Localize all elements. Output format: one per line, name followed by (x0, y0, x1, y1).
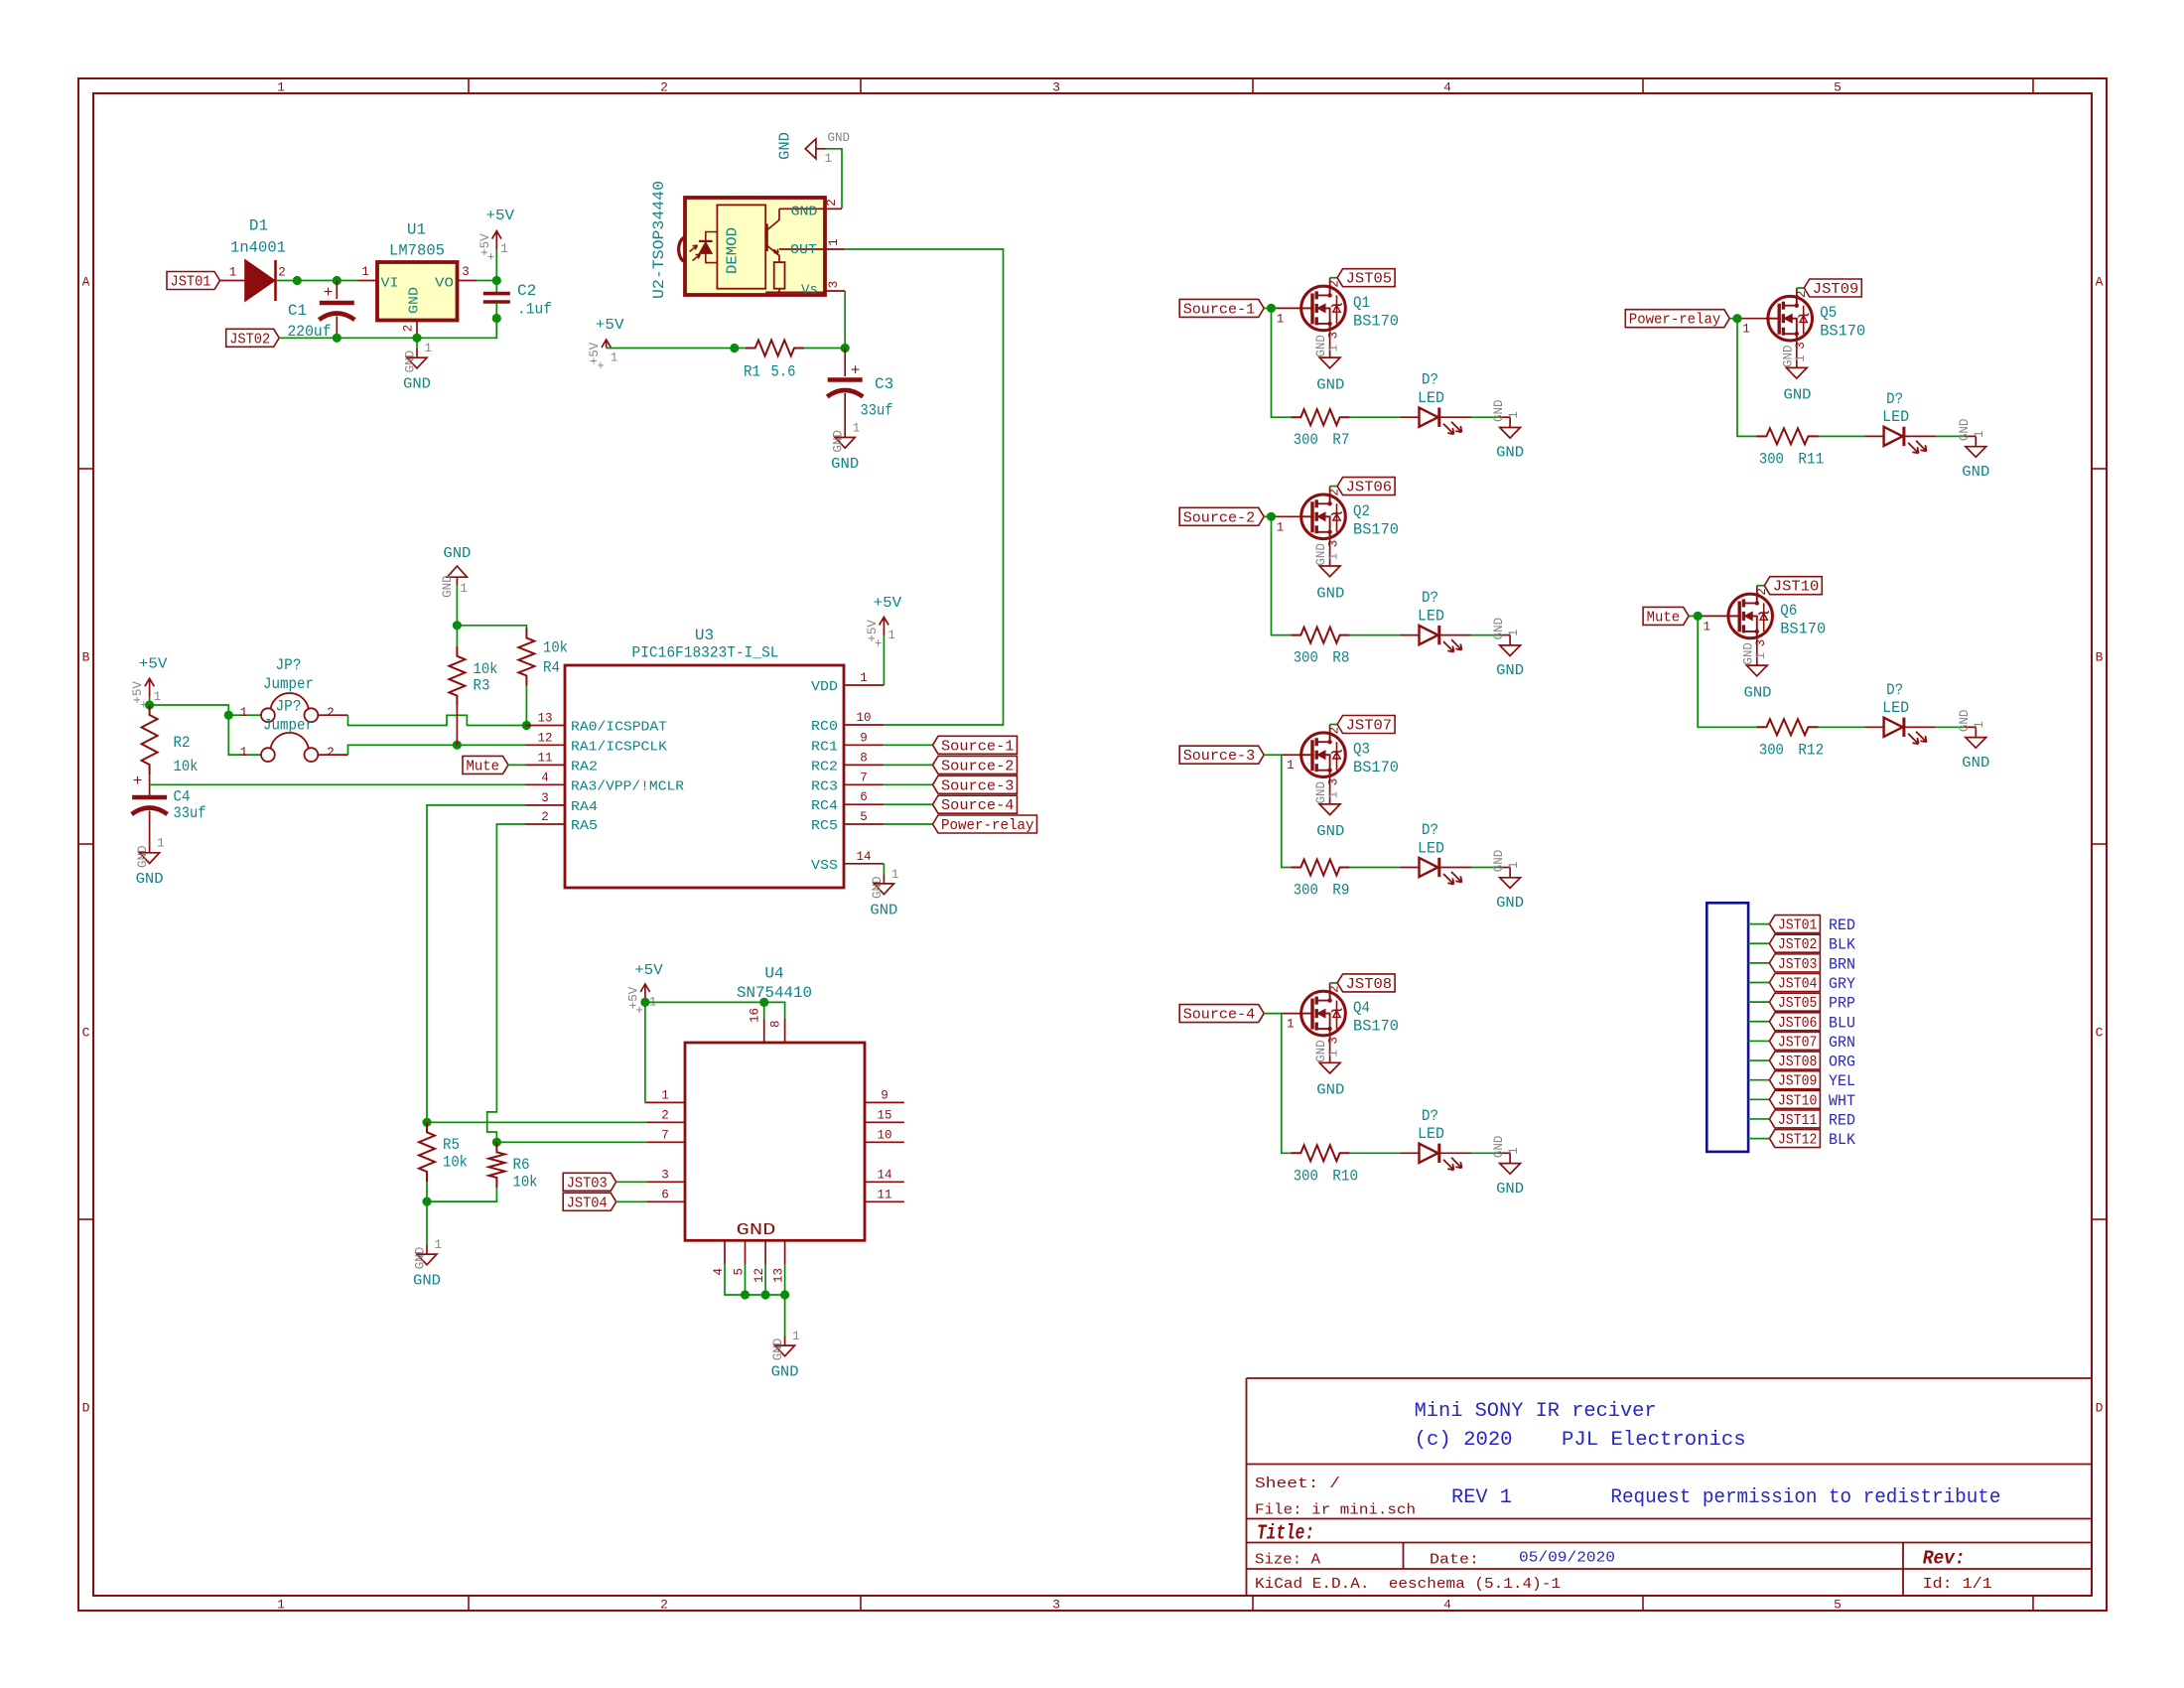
svg-text:BS170: BS170 (1820, 323, 1865, 341)
svg-text:RC3: RC3 (811, 778, 838, 794)
power +5V at U1 output (495, 250, 497, 279)
svg-text:JST02: JST02 (229, 331, 270, 348)
svg-text:5: 5 (1834, 80, 1842, 95)
global label Source-2 at RC2 (933, 756, 1018, 774)
U2 internal resistor (774, 262, 785, 289)
svg-text:3: 3 (1327, 332, 1341, 340)
wire R6 row to U4 pin 7 (496, 1141, 645, 1143)
svg-text:5: 5 (860, 810, 868, 824)
svg-text:JST04: JST04 (567, 1195, 608, 1211)
jumper JP2 (261, 748, 275, 762)
resistor R2 (142, 705, 158, 774)
global label JST09 at drain (1797, 287, 1805, 289)
transistor Q5 BS170 (1768, 296, 1813, 341)
capacitor C4 (132, 795, 167, 800)
svg-text:GRN: GRN (1829, 1034, 1855, 1052)
svg-text:SN754410: SN754410 (737, 984, 812, 1002)
wire gate node to resistor R7 (1272, 308, 1292, 417)
svg-text:DEMOD: DEMOD (725, 227, 742, 274)
wire GND to U2 pin 2 (826, 149, 843, 209)
svg-text:2: 2 (327, 746, 335, 760)
junction R5 top (422, 1118, 431, 1127)
svg-text:10k: 10k (513, 1174, 538, 1192)
svg-text:JST06: JST06 (1346, 480, 1393, 496)
pin 2 drain of Q4 (1329, 983, 1331, 991)
transistor Q3 BS170 (1301, 733, 1346, 777)
junction C1 bottom (333, 334, 341, 343)
resistor R3 (449, 646, 465, 706)
svg-text:JST01: JST01 (1778, 917, 1818, 934)
ground GND below Q1 (1319, 357, 1340, 368)
svg-text:Mini SONY IR reciver: Mini SONY IR reciver (1415, 1400, 1657, 1423)
U4 pin 1 (646, 1101, 685, 1103)
svg-text:BS170: BS170 (1353, 312, 1399, 330)
svg-text:REV 1: REV 1 (1451, 1486, 1512, 1509)
svg-text:VO: VO (435, 276, 454, 292)
svg-text:GND: GND (1496, 445, 1524, 462)
svg-text:4: 4 (1443, 1598, 1451, 1613)
svg-text:C: C (2096, 1026, 2104, 1041)
svg-text:1: 1 (425, 342, 433, 355)
svg-text:PRP: PRP (1829, 995, 1855, 1013)
U2 photodiode (699, 240, 713, 242)
wire RC4 to Source-4 (884, 803, 932, 805)
ground GND at R7 row end (1499, 416, 1510, 418)
svg-text:Rev:: Rev: (1923, 1548, 1966, 1570)
svg-text:GND: GND (831, 456, 859, 473)
svg-text:.1uf: .1uf (517, 301, 552, 319)
ground GND at R10 row end (1499, 1152, 1510, 1154)
svg-text:Q3: Q3 (1353, 741, 1370, 759)
svg-text:File: ir mini.sch: File: ir mini.sch (1255, 1502, 1416, 1519)
global label JST06 connector (1769, 1013, 1820, 1031)
svg-text:GND: GND (407, 287, 423, 314)
svg-text:10k: 10k (474, 660, 498, 678)
svg-text:9: 9 (881, 1088, 888, 1102)
wire RA3 net (150, 783, 525, 785)
svg-text:14: 14 (856, 850, 871, 864)
svg-text:15: 15 (877, 1108, 891, 1122)
svg-text:Source-1: Source-1 (1183, 301, 1256, 318)
svg-text:R1: R1 (744, 363, 760, 381)
svg-text:3: 3 (1052, 80, 1060, 95)
U3 pin 2 RA5 (525, 823, 565, 825)
svg-text:GND: GND (1492, 1136, 1506, 1159)
global label JST010 at drain (1757, 585, 1765, 587)
svg-text:GND: GND (441, 575, 455, 598)
svg-text:GND: GND (1958, 419, 1972, 442)
wire R5 row to U4 pin 2 (427, 1121, 646, 1123)
svg-text:10k: 10k (443, 1154, 468, 1172)
wire gate node to resistor R10 (1282, 1014, 1292, 1154)
svg-text:5: 5 (733, 1268, 747, 1276)
U2 internal transistor (765, 224, 768, 252)
svg-text:RC5: RC5 (811, 818, 838, 834)
U2 pin 1 OUT (825, 248, 845, 250)
svg-text:JST10: JST10 (1778, 1092, 1818, 1109)
svg-text:+: + (851, 362, 861, 380)
U3 pin 10 RC0 (844, 724, 884, 726)
pin 3 source of Q4 (1329, 1036, 1331, 1062)
U3 pin 9 RC1 (844, 744, 884, 746)
wire R5 bottom to R6 (426, 1182, 428, 1201)
svg-text:+5V: +5V (596, 317, 624, 334)
svg-text:Source-2: Source-2 (941, 758, 1015, 774)
svg-text:D?: D? (1422, 1107, 1438, 1125)
wire VSS to GND (883, 864, 885, 875)
svg-text:1: 1 (792, 1330, 800, 1343)
U3 pin 13 RA0/ICSPDAT (525, 725, 565, 727)
svg-text:JST06: JST06 (1778, 1015, 1818, 1032)
svg-text:D?: D? (1886, 681, 1903, 699)
svg-text:GND: GND (1316, 823, 1344, 840)
wire RC3 to Source-3 (884, 783, 932, 785)
svg-text:+5V: +5V (874, 595, 902, 612)
junction jumper feed (224, 711, 233, 720)
svg-text:R8: R8 (1332, 649, 1349, 667)
svg-text:+: + (635, 1004, 643, 1018)
global label JST08 connector (1769, 1052, 1820, 1069)
svg-text:3: 3 (1754, 639, 1768, 647)
svg-text:RC1: RC1 (811, 739, 838, 755)
wire R2 bottom to C4 (149, 774, 151, 795)
wire gate node to resistor R8 (1272, 516, 1292, 634)
junction R5 bottom (422, 1197, 431, 1206)
U4 pin 12 bottom (764, 1240, 766, 1264)
svg-text:D: D (82, 1401, 90, 1416)
svg-text:300: 300 (1294, 1167, 1318, 1185)
U1 pin 3 VO (458, 280, 478, 282)
svg-text:GND: GND (828, 131, 851, 145)
global label JST12 connector (1769, 1130, 1820, 1148)
svg-text:(c) 2020 PJL Electronics: (c) 2020 PJL Electronics (1415, 1429, 1746, 1452)
svg-text:1: 1 (240, 746, 248, 760)
global label JST03 (563, 1173, 616, 1191)
svg-text:LED: LED (1418, 839, 1444, 857)
wire RC5 to Power-relay (884, 823, 932, 825)
ground GND below C3 (844, 428, 846, 438)
resistor R1 (746, 341, 804, 356)
svg-text:Q4: Q4 (1353, 999, 1370, 1017)
global label JST05 at drain (1330, 277, 1338, 279)
svg-text:U4: U4 (764, 965, 783, 983)
svg-text:+5V: +5V (139, 655, 168, 672)
U4 pin 3 (646, 1181, 685, 1183)
global label JST05 connector (1769, 993, 1820, 1011)
svg-text:+: + (597, 359, 605, 373)
svg-text:R11: R11 (1798, 450, 1824, 468)
svg-text:JST03: JST03 (1778, 956, 1818, 973)
wire R12 to LED (1819, 726, 1865, 728)
ground GND below VSS (883, 874, 885, 884)
ground GND at R8 row end (1499, 634, 1510, 636)
svg-text:3: 3 (1052, 1598, 1060, 1613)
pin 3 source of Q5 (1796, 341, 1798, 367)
svg-text:GND: GND (136, 845, 150, 868)
transistor Q1 BS170 (1301, 286, 1346, 331)
svg-text:+5V: +5V (486, 208, 515, 224)
svg-text:1: 1 (277, 1598, 285, 1613)
svg-text:1: 1 (460, 582, 468, 596)
transistor Q2 BS170 (1301, 494, 1346, 539)
global label Source-3 at Q3 (1179, 746, 1264, 764)
svg-text:GND: GND (1496, 895, 1524, 912)
U3 pin 5 RC5 (844, 823, 884, 825)
svg-text:GND: GND (771, 1338, 785, 1361)
svg-text:9: 9 (860, 731, 868, 745)
power +5V at R2 (149, 697, 151, 705)
svg-text:1: 1 (1973, 721, 1986, 729)
svg-text:BLU: BLU (1829, 1014, 1855, 1032)
pin 3 source of Q2 (1329, 539, 1331, 566)
svg-text:Source-3: Source-3 (941, 777, 1015, 794)
wire connector pin 1 (1748, 923, 1769, 925)
svg-text:GRY: GRY (1829, 975, 1855, 993)
svg-text:JST11: JST11 (1778, 1112, 1818, 1129)
svg-text:8: 8 (860, 751, 868, 765)
svg-text:300: 300 (1294, 431, 1318, 449)
wire Source-4 to gate (1264, 1013, 1282, 1015)
wire Power-relay to gate (1729, 318, 1737, 320)
svg-text:2: 2 (402, 325, 416, 333)
ground GND at R12 row end (1966, 726, 1977, 728)
svg-text:R9: R9 (1332, 882, 1349, 900)
svg-text:1: 1 (860, 671, 868, 685)
svg-text:GND: GND (832, 430, 846, 453)
junction gate node (1694, 612, 1703, 621)
svg-text:2: 2 (541, 810, 549, 824)
svg-text:+: + (875, 636, 883, 650)
svg-text:GND: GND (1316, 376, 1344, 393)
svg-text:8: 8 (769, 1020, 783, 1028)
svg-text:33uf: 33uf (861, 402, 893, 420)
svg-text:12: 12 (752, 1268, 766, 1283)
svg-text:2: 2 (661, 1108, 669, 1122)
column ticks (468, 78, 470, 93)
U2 lens bulge (679, 237, 685, 261)
global label Mute at Q6 (1643, 607, 1689, 625)
wire R7 to LED (1350, 416, 1401, 418)
global label JST01 (167, 272, 220, 290)
global label JST02 connector (1769, 934, 1820, 952)
ground GND below R5 (426, 1245, 428, 1255)
svg-text:LM7805: LM7805 (389, 242, 445, 260)
svg-text:Vs: Vs (801, 283, 818, 299)
svg-text:JST05: JST05 (1346, 271, 1393, 288)
svg-text:RC4: RC4 (811, 798, 838, 814)
svg-text:1: 1 (1277, 520, 1285, 534)
svg-text:11: 11 (877, 1188, 891, 1201)
ground GND below C4 (149, 843, 151, 853)
resistor R10 (1291, 1145, 1349, 1161)
svg-text:GND: GND (1958, 710, 1972, 733)
svg-text:D?: D? (1422, 821, 1438, 839)
svg-text:JST12: JST12 (1778, 1132, 1818, 1149)
svg-text:3: 3 (1327, 540, 1341, 548)
svg-text:1: 1 (827, 238, 841, 246)
global label JST07 at drain (1330, 724, 1338, 726)
svg-text:+: + (487, 251, 495, 265)
svg-text:RED: RED (1829, 916, 1855, 934)
svg-text:10k: 10k (174, 758, 199, 775)
svg-text:D?: D? (1886, 390, 1903, 408)
wire R5 gnd (426, 1201, 428, 1244)
wire gate node to resistor R11 (1737, 319, 1756, 437)
global label JST11 connector (1769, 1110, 1820, 1128)
U2 TSOP34440 body (685, 198, 825, 295)
U4 pin 6 (646, 1200, 685, 1202)
wire +5V to R1 (607, 348, 746, 350)
U4 pin 2 (646, 1121, 685, 1123)
svg-text:JST07: JST07 (1778, 1034, 1818, 1051)
wire RA5 down to R6 (487, 824, 525, 1142)
svg-text:1: 1 (1703, 620, 1710, 633)
wire +5V to jumpers (150, 705, 261, 755)
wire connector pin 4 (1748, 982, 1769, 984)
svg-text:GND: GND (1492, 618, 1506, 640)
svg-text:GND: GND (777, 132, 794, 160)
junction C3 top (841, 344, 850, 352)
wire LED to GND (1440, 1152, 1472, 1154)
title block outline (1246, 1378, 1248, 1596)
ground GND below Q2 (1319, 566, 1340, 577)
svg-text:JST08: JST08 (1778, 1054, 1818, 1070)
global label Power-relay at Q5 (1625, 310, 1729, 328)
wire Mute to gate (1689, 615, 1698, 617)
svg-text:GND: GND (1316, 585, 1344, 602)
wire R1 to C3 (804, 348, 845, 350)
svg-text:OUT: OUT (790, 242, 817, 258)
svg-text:RA4: RA4 (571, 799, 598, 815)
svg-text:3: 3 (1327, 1037, 1341, 1045)
U3 pin 11 RA2 (525, 764, 565, 766)
svg-text:C4: C4 (174, 788, 191, 806)
svg-text:1: 1 (1327, 791, 1341, 799)
svg-text:1: 1 (1754, 652, 1768, 660)
svg-text:GND: GND (870, 902, 897, 918)
svg-text:BS170: BS170 (1353, 1018, 1399, 1036)
svg-text:Source-4: Source-4 (941, 797, 1015, 814)
svg-text:R6: R6 (513, 1156, 530, 1174)
wire R8 to LED (1350, 634, 1401, 636)
junction R3 top (453, 621, 462, 630)
svg-text:RA2: RA2 (571, 759, 598, 774)
wire connector pin 12 (1748, 1138, 1769, 1140)
junction VO node (492, 276, 501, 285)
svg-text:GND: GND (413, 1273, 441, 1290)
svg-text:1: 1 (157, 837, 165, 851)
svg-text:GND: GND (403, 376, 431, 393)
U3 pin 3 RA4 (525, 804, 565, 806)
U1 pin 1 VI (358, 280, 377, 282)
pin 2 drain of Q3 (1329, 725, 1331, 733)
resistor R11 (1756, 428, 1818, 444)
svg-text:LED: LED (1418, 1125, 1444, 1143)
global label JST02 (226, 329, 280, 347)
svg-text:05/09/2020: 05/09/2020 (1519, 1550, 1615, 1567)
svg-text:13: 13 (772, 1268, 786, 1283)
svg-text:VI: VI (381, 276, 399, 292)
wire to JP1 pin1 (228, 714, 261, 716)
svg-text:2: 2 (660, 80, 668, 95)
wire connector pin 2 (1748, 942, 1769, 944)
svg-text:Source-4: Source-4 (1183, 1007, 1256, 1024)
svg-text:WHT: WHT (1829, 1092, 1855, 1110)
wire U4 ground bus (725, 1264, 785, 1336)
svg-text:GND: GND (136, 871, 164, 888)
svg-text:7: 7 (661, 1128, 669, 1142)
transistor Q4 BS170 (1301, 991, 1346, 1036)
svg-text:11: 11 (537, 751, 552, 765)
svg-text:RED: RED (1829, 1111, 1855, 1129)
svg-text:1: 1 (154, 690, 162, 704)
connector body (1706, 903, 1748, 1152)
global label JST08 at drain (1330, 982, 1338, 984)
wire LED to GND (1440, 416, 1472, 418)
svg-text:GND: GND (1496, 662, 1524, 679)
svg-text:Date:: Date: (1430, 1552, 1479, 1569)
junction C2 bottom (492, 314, 501, 323)
svg-text:5: 5 (1834, 1598, 1842, 1613)
svg-text:6: 6 (661, 1188, 669, 1201)
pin 2 drain of Q5 (1796, 288, 1798, 296)
svg-text:JST09: JST09 (1813, 281, 1859, 298)
svg-text:1: 1 (887, 629, 895, 642)
svg-text:1: 1 (1327, 1050, 1341, 1057)
global label JST09 connector (1769, 1071, 1820, 1089)
svg-text:BLK: BLK (1829, 1131, 1855, 1149)
svg-text:VSS: VSS (811, 858, 838, 874)
svg-text:R2: R2 (174, 734, 191, 752)
svg-text:R4: R4 (543, 659, 560, 677)
svg-text:2: 2 (327, 706, 335, 720)
U4 pin 10 right (865, 1141, 904, 1143)
svg-text:1: 1 (1277, 312, 1285, 326)
svg-text:GND: GND (871, 877, 885, 900)
svg-text:1: 1 (825, 152, 833, 166)
wire gate node to resistor R12 (1698, 616, 1756, 727)
svg-text:GND: GND (771, 1364, 799, 1381)
svg-text:LED: LED (1882, 699, 1909, 717)
svg-text:JST08: JST08 (1346, 976, 1393, 993)
U4 pin 13 bottom (784, 1240, 786, 1264)
wire connector pin 9 (1748, 1079, 1769, 1081)
svg-text:C: C (82, 1026, 90, 1041)
svg-text:B: B (2096, 650, 2104, 665)
svg-text:1: 1 (1287, 1018, 1295, 1032)
svg-text:RC0: RC0 (811, 719, 838, 735)
svg-text:Q2: Q2 (1353, 502, 1370, 520)
svg-text:GND: GND (1492, 850, 1506, 873)
wire connector pin 8 (1748, 1059, 1769, 1061)
U4 pin 5 bottom (745, 1240, 747, 1264)
svg-text:Source-1: Source-1 (941, 738, 1015, 755)
junction R3 bottom (453, 741, 462, 750)
resistor R4 (518, 629, 534, 686)
global label Source-1 at RC1 (933, 736, 1018, 754)
svg-text:16: 16 (749, 1008, 762, 1023)
global label JST07 connector (1769, 1032, 1820, 1050)
wire JST04 to pin6 (616, 1200, 646, 1202)
svg-text:1: 1 (361, 265, 369, 279)
capacitor C3 (844, 349, 846, 377)
global label Source-2 at Q2 (1179, 507, 1264, 525)
svg-text:D1: D1 (249, 217, 268, 235)
svg-text:Sheet: /: Sheet: / (1255, 1476, 1340, 1492)
LED D? Q5 row (1884, 427, 1903, 446)
svg-text:3: 3 (1327, 778, 1341, 786)
global label JST10 connector (1769, 1090, 1820, 1108)
